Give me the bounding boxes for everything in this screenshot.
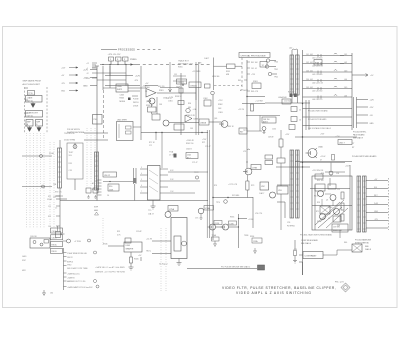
edge connector stubs left (25, 88, 28, 126)
svg-text:C59 SW: C59 SW (333, 227, 340, 229)
test point TP31 (88, 239, 91, 242)
svg-text:TP74: TP74 (216, 202, 220, 204)
wire 250 ohm row (84, 139, 108, 141)
wire into shaper (108, 245, 124, 247)
jack J31 (67, 239, 71, 243)
arrow down B (37, 126, 41, 132)
svg-text:P90: P90 (94, 119, 97, 121)
svg-text:+SAWTOOTH: +SAWTOOTH (27, 111, 39, 114)
svg-text:C41 .001: C41 .001 (306, 54, 313, 56)
svg-text:L43 C43 680: L43 C43 680 (312, 74, 322, 76)
svg-text:C58: C58 (336, 173, 339, 175)
svg-text:GND: GND (374, 211, 379, 213)
power box 1 (109, 57, 114, 61)
svg-text:U75A: U75A (169, 208, 175, 211)
short rows near trace note (173, 76, 186, 81)
boxed label switching (332, 224, 348, 232)
resistor R368 under op-amp (148, 107, 157, 112)
ground under IC (151, 200, 156, 209)
row: J30 (64, 256, 67, 258)
svg-text:1 MHZ SINE FROM CAL: 1 MHZ SINE FROM CAL (67, 252, 87, 255)
transistor Q73 (245, 168, 252, 175)
svg-text:R21: R21 (48, 196, 51, 198)
inside box label (315, 184, 325, 191)
svg-text:U73B: U73B (252, 168, 258, 170)
svg-text:T80 C: T80 C (146, 251, 152, 253)
svg-text:FIG. 1-73: FIG. 1-73 (335, 282, 344, 284)
transistor U340 (308, 149, 317, 158)
svg-text:C52: C52 (337, 189, 340, 191)
wire amp input (145, 85, 158, 87)
svg-text:250Ω: 250Ω (49, 153, 54, 155)
svg-text:T75: T75 (148, 210, 151, 212)
stub left of contrast (299, 254, 303, 256)
relay box stack row 1 (51, 228, 63, 233)
svg-text:R95 C95: R95 C95 (55, 192, 62, 194)
svg-text:250Ω TERM: 250Ω TERM (64, 140, 75, 142)
connector bus vertical (63, 248, 65, 290)
transistor Q57 (320, 214, 326, 220)
ladder rung 5 (303, 88, 353, 90)
svg-text:+GATE SEL 0.5 ms AT 1 kHz RAT: +GATE SEL 0.5 ms AT 1 kHz RATE (95, 266, 126, 269)
svg-text:U90 12: U90 12 (104, 175, 110, 177)
boxed label Q334 (214, 221, 222, 225)
test signal jack J35 (73, 145, 77, 149)
transistor Q75 (165, 212, 171, 218)
IC block U70 (148, 166, 161, 201)
transistor Q56 (334, 209, 340, 215)
IC right pin stubs (160, 169, 168, 193)
svg-text:50Ω COAX TO PIX TUBE: 50Ω COAX TO PIX TUBE (67, 267, 88, 270)
svg-text:P/O A12 INTER-: P/O A12 INTER- (353, 131, 367, 134)
delay line DL40 (290, 55, 294, 95)
junction dots y197 (212, 197, 213, 198)
collector rail y132.5 (141, 132, 208, 134)
ground J30 bottom (42, 290, 46, 296)
svg-text:R92: R92 (117, 231, 120, 233)
svg-text:TP42: TP42 (274, 77, 278, 79)
crystal photodiode header box (239, 53, 270, 58)
transistor Q80 (182, 241, 187, 246)
bus x247 tick stubs (244, 62, 250, 91)
svg-text:C334: C334 (120, 95, 124, 97)
amplifier chain x181 (180, 73, 182, 135)
logo diamond (341, 283, 350, 292)
power distribution rail (100, 64, 210, 66)
row: marker out (64, 280, 67, 282)
svg-text:R71 1K: R71 1K (149, 142, 156, 144)
svg-text:DIAG 8: DIAG 8 (365, 248, 371, 251)
svg-text:C41 .01: C41 .01 (251, 68, 257, 70)
svg-text:L45 C45 330: L45 C45 330 (312, 91, 322, 93)
wire y87.5 feed (160, 87, 179, 89)
transistor Q77 (223, 224, 229, 230)
switching cluster extra wires (320, 172, 348, 238)
ladder rung 7 (303, 108, 353, 110)
svg-text:Q65: Q65 (214, 118, 217, 120)
svg-text:R345 150: R345 150 (186, 143, 193, 145)
svg-text:J30 2V: J30 2V (67, 257, 73, 259)
bias column x280 (279, 139, 283, 147)
fig reference box (314, 60, 322, 66)
svg-text:PROCESSED: PROCESSED (118, 48, 135, 51)
wire right bus feed (247, 60, 265, 130)
gate box A (26, 120, 33, 127)
filter trim boxes column (291, 107, 297, 112)
box U53 (277, 186, 288, 194)
row: sawtooth (64, 286, 67, 288)
vertical pair right of center (196, 62, 199, 135)
sawtooth out box (26, 111, 43, 118)
label rung left stubs (340, 56, 344, 64)
svg-text:U40A R40: U40A R40 (278, 96, 287, 99)
svg-text:C363: C363 (218, 112, 223, 114)
svg-text:R74 680: R74 680 (232, 195, 239, 197)
junction dot x247 (246, 161, 247, 162)
resistor R73 (246, 181, 249, 190)
right output bus pair lower (hatched) (357, 176, 361, 232)
boxed label U75A (168, 206, 178, 212)
wire y115.5 (246, 115, 280, 117)
svg-text:R355: R355 (178, 67, 183, 69)
svg-text:SEE DIAG 4: SEE DIAG 4 (301, 242, 311, 245)
svg-text:R362: R362 (218, 104, 223, 106)
ladder component bumps row2 (318, 61, 337, 65)
svg-text:R73: R73 (251, 185, 254, 187)
shielded cable dotted run 6 (43, 133, 45, 228)
svg-text:+12.4V: +12.4V (320, 156, 326, 158)
wire emitter drop (200, 214, 203, 219)
test point TP40 (266, 59, 269, 62)
long output wire bottom (187, 268, 257, 270)
svg-text:CRYSTAL PHOTODIODE: CRYSTAL PHOTODIODE (241, 54, 267, 57)
svg-text:AR C/A 1T: AR C/A 1T (240, 89, 248, 92)
thermistor X box (320, 206, 330, 214)
svg-text:U345: U345 (126, 245, 131, 247)
svg-text:C6: C6 (328, 218, 330, 220)
filter ladder right bus (351, 53, 353, 130)
stacked boxes far left right-module (265, 155, 273, 159)
shaper ampl header box (124, 242, 142, 252)
svg-text:SWP A: SWP A (67, 260, 73, 263)
ladder rung 8 (303, 116, 353, 118)
switching cluster enclosure wires (310, 165, 352, 230)
svg-text:L42: L42 (344, 62, 347, 64)
wire end arrow main rail (131, 63, 134, 66)
hatched bus pair mid (306, 100, 309, 130)
wire vertical distribution x110 (109, 66, 111, 88)
svg-text:R335: R335 (230, 217, 234, 219)
boxed label R47B (239, 128, 247, 134)
svg-text:J30: J30 (50, 293, 53, 295)
svg-text:R71: R71 (202, 142, 205, 144)
secondary rung 3 (357, 114, 369, 116)
svg-text:L40: L40 (289, 48, 292, 50)
boxed label U358 (177, 79, 187, 84)
connector finger ticks (98, 180, 102, 195)
terminal box TP70 (28, 91, 35, 96)
svg-text:C44 .001: C44 .001 (306, 79, 313, 81)
svg-text:+ R72 4.7K: + R72 4.7K (228, 184, 238, 186)
svg-text:SWP GATES FROM: SWP GATES FROM (23, 80, 41, 83)
dashed feed wire to crystal (241, 58, 243, 91)
wire row y197 (213, 197, 253, 199)
svg-text:Q62: Q62 (146, 101, 149, 103)
svg-text:TP40: TP40 (274, 62, 278, 64)
shaper input box U34 (116, 84, 128, 92)
svg-text:U345 T: U345 T (339, 142, 346, 144)
extend junction row left (242, 103, 265, 105)
svg-text:4: 4 (141, 173, 142, 175)
svg-text:C71: C71 (149, 145, 152, 147)
coupling box C366 (152, 114, 160, 120)
wire from R47B (247, 116, 262, 132)
ladder component bumps row3 (318, 70, 337, 74)
svg-text:SEE PARTS LIST: SEE PARTS LIST (178, 63, 194, 66)
wire right branch vertical (247, 130, 253, 228)
svg-text:R41 10K: R41 10K (251, 62, 258, 64)
svg-text:C362: C362 (203, 98, 208, 100)
svg-text:MARKER +12 V SUPPLY RETURN: MARKER +12 V SUPPLY RETURN (95, 271, 125, 274)
svg-text:U345 SHPR: U345 SHPR (117, 120, 127, 122)
svg-text:C72 47: C72 47 (205, 146, 211, 148)
coupling box C355 (227, 64, 236, 69)
svg-text:R47: R47 (240, 132, 243, 134)
shielded cable dotted run 4 (36, 133, 38, 228)
wire from IC to center bus (168, 172, 208, 193)
svg-text:Gn Signal: Gn Signal (159, 264, 168, 266)
svg-text:+GATE: +GATE (27, 96, 34, 99)
boxed label U360A (189, 82, 201, 88)
arrow down at 183,85 (182, 81, 185, 86)
ground below R345 (129, 263, 134, 270)
svg-text:TP41: TP41 (274, 69, 278, 71)
bus wire center vertical 2 (207, 130, 209, 238)
inductor coil L40 (292, 49, 298, 50)
bias box R56 (315, 174, 323, 179)
svg-text:+12V: +12V (345, 166, 350, 168)
ladder component bumps row6 (318, 95, 337, 99)
svg-text:R361: R361 (159, 90, 164, 92)
svg-text:C42 .001: C42 .001 (306, 62, 313, 64)
transistor Q76 (210, 224, 216, 230)
delay line DL50 (290, 150, 294, 218)
svg-text:L46 C46 270: L46 C46 270 (312, 99, 322, 101)
svg-text:C45 .001: C45 .001 (306, 87, 313, 89)
boxed label C48 (262, 117, 276, 123)
wire bus taps mid left (60, 140, 75, 232)
svg-text:U365B: U365B (200, 123, 207, 125)
shield dotted columns mid (87, 128, 95, 186)
wire emitter row (295, 161, 352, 163)
wire mid row dots (276, 166, 310, 168)
wire into enclosure lower (152, 253, 171, 255)
svg-text:C/A 1T: C/A 1T (204, 57, 209, 60)
wire -12V feed (90, 65, 140, 86)
lower bus rung 1 (366, 180, 388, 182)
svg-text:MAG: MAG (94, 209, 99, 212)
switch box S60 with X (352, 244, 362, 252)
svg-text:C41: C41 (344, 54, 347, 56)
svg-text:L44 C44 1.5K: L44 C44 1.5K (312, 83, 324, 85)
right secondary bus pair (354, 97, 357, 128)
ground below enclosure (177, 259, 182, 266)
x60 bus tick stubs (56, 196, 60, 226)
transistor block Q30 (30, 238, 50, 248)
wire crossing shield y186.5 (22, 186, 52, 188)
svg-text:C63: C63 (159, 104, 162, 106)
svg-text:TP72: TP72 (194, 172, 199, 174)
boxed label U345T (338, 140, 352, 145)
attenuator inner conductors (60, 148, 97, 190)
svg-text:R6: R6 (343, 211, 345, 213)
wire horizontal tap (56, 198, 67, 200)
boxed label C33A (252, 238, 262, 243)
svg-text:MODE: MODE (120, 101, 126, 103)
bus tick stubs with labels (92, 63, 97, 78)
collector bus vertical (238, 214, 240, 248)
junction dot power (102, 64, 103, 65)
svg-text:VIDEO AMPL & Z AXIS SWITCHING: VIDEO AMPL & Z AXIS SWITCHING (236, 291, 312, 295)
wire 75 ohm row (84, 132, 108, 134)
svg-text:C30 B: C30 B (52, 238, 58, 240)
svg-text:TRACE ROT: TRACE ROT (178, 60, 190, 63)
resistor box chain 2 (178, 101, 184, 105)
IC left pin stubs (140, 169, 148, 193)
lower bus rung 2 (366, 188, 388, 190)
wire U360A output (157, 88, 196, 101)
shield enclosure dashed borders (25, 87, 48, 133)
contrast boxed label (303, 252, 323, 259)
wire stub y96 (132, 95, 138, 97)
svg-text:+12.3V: +12.3V (146, 239, 153, 241)
ladder rung 4 (303, 80, 353, 82)
ground mark x295 (293, 256, 297, 264)
processed power header line (101, 49, 161, 51)
row: SWP A (64, 260, 67, 262)
svg-text:R4 47: R4 47 (314, 196, 318, 198)
wire stub row (55, 195, 63, 197)
shielded cable dotted run 1 (26, 133, 28, 228)
transistor Q361 (149, 98, 155, 104)
ladder rung 9 (303, 125, 353, 127)
svg-text:R358 1K: R358 1K (175, 96, 182, 98)
svg-text:R43 4.7K: R43 4.7K (251, 91, 259, 93)
gate box B (36, 120, 43, 127)
transistor Q358 (186, 108, 190, 112)
svg-text:+12: +12 (86, 63, 89, 65)
svg-text:ALL PLUG-IN UNIT: ALL PLUG-IN UNIT (23, 83, 41, 86)
svg-text:WIDTH: WIDTH (133, 102, 139, 104)
resistor column R57 (341, 192, 344, 199)
svg-text:R30 A: R30 A (52, 243, 58, 246)
shielded cable dotted run 7 (49, 142, 51, 228)
svg-text:+12V R54 1K: +12V R54 1K (312, 170, 324, 172)
transistor Q54 (318, 191, 324, 197)
transistor Q55 (330, 195, 336, 201)
svg-text:L74 C74: L74 C74 (255, 213, 262, 215)
core mark (174, 154, 177, 158)
secondary rung 4 (357, 122, 369, 124)
svg-text:GND: GND (83, 86, 88, 88)
svg-text:+12.5V: +12.5V (238, 109, 245, 111)
svg-text:PWRS: PWRS (130, 59, 137, 61)
svg-text:+GATE SAWTOOTH 0.5ms/DIV: +GATE SAWTOOTH 0.5ms/DIV (67, 286, 93, 289)
svg-text:R55: R55 (317, 221, 320, 223)
boxed label U75A4 (204, 206, 214, 211)
svg-text:C7: C7 (352, 143, 354, 145)
test point TP360 (211, 91, 215, 95)
ladder component bumps row1 (318, 53, 337, 57)
dashed link row (214, 85, 242, 87)
svg-text:+C345 4R: +C345 4R (186, 140, 194, 142)
wires left cluster to bus (265, 185, 290, 218)
svg-text:C72 47: C72 47 (192, 162, 198, 164)
junction dot rail (161, 132, 162, 133)
delay line DL31 (95, 152, 99, 190)
wire crystal row (214, 65, 243, 67)
svg-text:C21: C21 (48, 206, 51, 208)
svg-text:R36: R36 (188, 103, 191, 105)
svg-text:680: 680 (188, 107, 191, 109)
wire vertical distribution x103 (102, 66, 104, 90)
svg-text:TP40: TP40 (67, 265, 71, 267)
jack J48 (262, 127, 266, 131)
svg-text:R7: R7 (352, 147, 354, 149)
enclosure internal wires (322, 194, 340, 222)
wire +C row (239, 218, 248, 220)
dashed far-right vertical (388, 178, 390, 230)
box C92 (125, 238, 131, 243)
svg-text:SHPR: SHPR (117, 89, 123, 91)
svg-text:+12V: +12V (135, 76, 141, 78)
shielded cable dotted run 3 (33, 133, 35, 228)
ladder component bumps row4 (318, 78, 337, 82)
svg-text:C/A 1T: C/A 1T (148, 213, 155, 216)
svg-text:PULSE WIDTH: PULSE WIDTH (67, 129, 81, 131)
boxed label C345 AT7 (186, 153, 198, 159)
dotted drop x103 (102, 218, 104, 245)
svg-text:R74: R74 (214, 185, 217, 187)
svg-text:-12: -12 (86, 73, 89, 75)
svg-text:DISCR: DISCR (133, 106, 139, 108)
small box left of Q30 (56, 232, 61, 238)
svg-text:R42: R42 (238, 80, 241, 82)
ladder component bumps row5 (318, 86, 337, 90)
terminator box dark (258, 265, 265, 270)
transformer box T33A (212, 237, 220, 241)
ladder rung 1 (303, 55, 353, 57)
boxed label C335 (229, 221, 237, 225)
svg-text:R334: R334 (250, 236, 254, 238)
svg-text:C31: C31 (174, 74, 177, 76)
svg-text:OUT 50: OUT 50 (27, 100, 33, 102)
svg-text:P345: P345 (103, 244, 107, 246)
svg-text:C345 B: C345 B (186, 149, 193, 151)
svg-text:SEL: SEL (344, 242, 347, 244)
boxed label U90 (103, 172, 117, 177)
box R52 (277, 158, 285, 163)
wire q76 q77 link (216, 226, 239, 228)
svg-text:120Ω: 120Ω (47, 199, 52, 201)
resistor R364 vertical (251, 104, 254, 111)
capacitor C362 (204, 100, 211, 106)
relay box stack row 3 (51, 242, 63, 247)
wire box U34 to op-amp (103, 88, 146, 91)
svg-text:C5: C5 (299, 110, 301, 112)
test point TP72 (195, 176, 198, 179)
stage box U365B (199, 119, 209, 125)
